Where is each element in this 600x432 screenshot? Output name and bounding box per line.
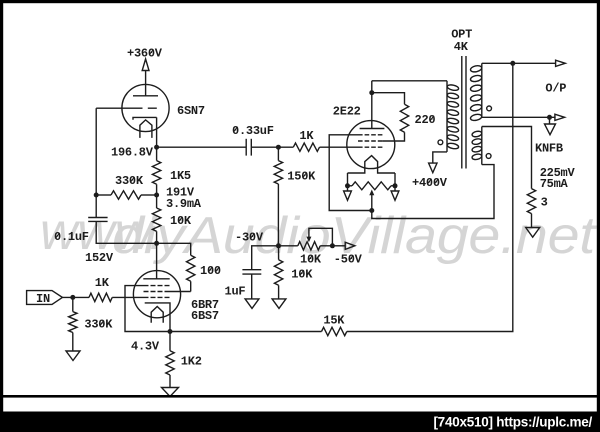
wire 2E22 plate to OPT primary — [372, 80, 447, 82]
node at 330K left — [94, 193, 99, 198]
wire 0.1uF bottom to 152V rail — [96, 221, 156, 243]
svg-text:[740x510] https://uplc.me/: [740x510] https://uplc.me/ — [433, 415, 592, 430]
ground (3R) — [526, 228, 540, 238]
6BR7 cathode — [145, 303, 170, 332]
svg-text:150K: 150K — [287, 170, 316, 184]
resistor 1K2 (cathode) — [166, 351, 174, 375]
wire cap to node — [251, 146, 293, 148]
svg-text:10K: 10K — [300, 252, 322, 266]
filament supply arrow left — [347, 186, 349, 191]
transformer OPT primary winding — [446, 81, 448, 152]
6SN7 plate bar — [133, 95, 158, 97]
resistor 10K (plate load) — [152, 208, 160, 231]
power +360V arrow — [142, 59, 149, 71]
node filament right — [393, 183, 398, 188]
secondary top lead — [482, 62, 556, 64]
2E22 grid g1 (dashed) — [358, 146, 382, 148]
power -50V arrow — [345, 242, 355, 249]
node coupling — [276, 145, 281, 150]
svg-text:0.1uF: 0.1uF — [54, 230, 89, 244]
transformer secondary winding (output) — [481, 63, 483, 117]
svg-text:3: 3 — [541, 195, 548, 209]
feedback phase dot — [486, 154, 491, 159]
filament right lead — [394, 173, 396, 186]
svg-text:196.8V: 196.8V — [111, 145, 154, 159]
svg-text:IN: IN — [36, 292, 50, 306]
svg-text:1uF: 1uF — [225, 284, 246, 298]
ground (10K) — [272, 299, 286, 309]
6BR7 grid g3 (dashed) — [144, 285, 170, 287]
wire 330K left stub — [96, 194, 111, 196]
transformer core — [461, 56, 463, 169]
wire 10K to ground — [278, 285, 280, 299]
wire -30V node to 1uF — [252, 246, 279, 270]
capacitor 0.33uF — [245, 139, 247, 156]
wire 1K to 6BR7 g1 — [112, 296, 143, 298]
KNFB arrow — [549, 117, 551, 124]
2E22 plate bar — [360, 128, 385, 130]
svg-text:4.3V: 4.3V — [131, 339, 160, 353]
wire 3R to ground — [531, 214, 533, 228]
wire 196.8V node to coupling cap — [157, 146, 246, 148]
resistor 330K (input) — [69, 312, 77, 333]
wire node to 1K5 — [156, 147, 158, 160]
wire 330K right stub — [141, 194, 157, 196]
node 152V — [154, 241, 159, 246]
wire 2E22 plate up — [371, 81, 373, 129]
wire IN to node — [62, 296, 89, 298]
tube 6SN7 envelope — [122, 84, 169, 131]
wire 6BR7 plate to 152V node — [156, 243, 158, 278]
wire O/P to 15K feedback — [347, 63, 513, 331]
resistor 15K (feedback) — [322, 327, 347, 335]
wire node to 150K — [277, 147, 279, 160]
wire to -50V arrow — [332, 245, 345, 247]
6BR7 heater — [151, 307, 163, 323]
tube 6BR7/6BS7 envelope — [133, 271, 180, 318]
node plate/220 — [369, 90, 374, 95]
svg-text:100: 100 — [200, 264, 221, 278]
wire +360V to 6SN7 plate — [145, 71, 147, 96]
svg-text:6BS7: 6BS7 — [191, 309, 219, 323]
svg-text:+360V: +360V — [127, 47, 163, 61]
wire 1K5 to 191V node — [156, 184, 158, 195]
node O/P bottom — [547, 115, 552, 120]
wire node to 330K — [72, 297, 74, 311]
wire -30V to pot — [279, 245, 298, 247]
svg-text:75mA: 75mA — [540, 177, 569, 191]
output arrow O/P top — [556, 60, 566, 66]
svg-text:+400V: +400V — [412, 176, 448, 190]
svg-text:330K: 330K — [115, 174, 144, 188]
wire 10K to 152V node — [156, 231, 158, 243]
svg-text:3.9mA: 3.9mA — [166, 197, 202, 211]
node -30V — [276, 243, 281, 248]
pot wiper arrowhead — [306, 237, 311, 243]
filament left lead — [347, 173, 349, 186]
wire 152V rail to 100R — [157, 243, 191, 255]
svg-text:10K: 10K — [170, 214, 192, 228]
resistor 330K (upper) — [111, 191, 141, 199]
secondary bottom lead — [482, 116, 556, 118]
wire -30V to 10K — [278, 246, 280, 260]
wire 6SN7 grid to left column — [96, 107, 133, 109]
resistor 3 ohm — [527, 189, 535, 214]
6BR7 plate bar — [143, 278, 169, 280]
node 196.8V — [154, 145, 159, 150]
node input junction — [70, 295, 75, 300]
ground (1K2) — [162, 388, 179, 397]
wire 1uF to ground — [251, 274, 253, 299]
svg-text:2E22: 2E22 — [333, 105, 361, 119]
ground (1uF) — [245, 299, 259, 309]
wire pot to -50V node — [320, 245, 332, 247]
wire 220 to g2 — [382, 132, 404, 141]
node -50V wire — [330, 243, 335, 248]
svg-text:6SN7: 6SN7 — [177, 104, 205, 118]
svg-text:-50V: -50V — [334, 252, 363, 266]
svg-text:4K: 4K — [454, 40, 469, 54]
frame border — [0, 0, 600, 3]
node filament left — [345, 183, 350, 188]
wire 1K2 to ground — [169, 375, 171, 388]
resistor 10K (bias divider) — [274, 260, 282, 286]
6SN7 grid (dashed) — [134, 107, 158, 109]
svg-text:1K: 1K — [95, 276, 110, 290]
node 191V — [154, 193, 159, 198]
6BR7 grid g1 (dashed) — [144, 296, 170, 298]
wire right node to pot — [391, 185, 395, 187]
wire 2E22 g3 tie to filament wiper — [329, 135, 372, 211]
resistor 1K (2E22 grid stopper) — [293, 143, 319, 151]
node wiper junction — [369, 208, 374, 213]
svg-text:-30V: -30V — [235, 230, 264, 244]
6SN7 heater — [140, 120, 152, 138]
svg-text:220: 220 — [415, 113, 436, 127]
svg-text:1K5: 1K5 — [170, 169, 191, 183]
resistor 220 (screen) — [400, 104, 408, 132]
svg-text:10K: 10K — [291, 267, 313, 281]
bottom host bar — [0, 412, 600, 432]
svg-text:330K: 330K — [84, 318, 113, 332]
2E22 grid g2 (dashed) — [358, 140, 382, 142]
filament supply arrow right — [394, 186, 396, 191]
svg-text:0.33uF: 0.33uF — [232, 124, 274, 138]
6SN7 cathode — [133, 117, 157, 119]
wire wiper to KNFB winding — [372, 165, 494, 219]
tube 2E22 envelope — [347, 121, 395, 169]
capacitor 0.1uF plates — [88, 217, 107, 219]
resistor 100 (screen) — [187, 255, 195, 281]
node IN tag — [27, 291, 63, 305]
2E22 filament — [348, 156, 396, 173]
wire 6SN7 cathode down to node — [156, 117, 158, 147]
wire 1K to 2E22 g1 — [320, 146, 359, 148]
svg-text:KNFB: KNFB — [535, 142, 563, 156]
wire 150K to -30V node — [277, 184, 279, 246]
capacitor 1uF plates — [242, 269, 261, 271]
svg-text:1K2: 1K2 — [181, 355, 202, 369]
svg-text:O/P: O/P — [545, 82, 566, 96]
ground (input) — [66, 351, 80, 361]
secondary phase dot — [487, 106, 492, 111]
wire left node to pot — [348, 185, 353, 187]
primary phase dot — [438, 140, 443, 145]
resistor 150K (grid leak) — [274, 161, 282, 184]
resistor 1K (grid stopper) — [89, 293, 112, 301]
6BR7 grid g2 (dashed) — [144, 291, 170, 293]
svg-text:152V: 152V — [85, 251, 114, 265]
node 4.3V cathode — [168, 329, 173, 334]
wire left column (grid bootstrap) — [95, 108, 97, 217]
wire 100R to 6BR7 g2 — [190, 281, 192, 291]
feedback winding top lead — [482, 127, 532, 189]
wire 6BR7 g2 to screen resistor — [170, 291, 191, 293]
pot wiper arm — [309, 228, 333, 246]
primary bottom lead — [433, 152, 447, 163]
node O/P top — [510, 61, 515, 66]
2E22 grid g3 (dashed) — [358, 134, 382, 136]
transformer feedback winding — [481, 127, 483, 165]
wire 6BR7 g3 tie to cathode — [125, 286, 170, 332]
wire cathode node to 1K2 — [169, 332, 171, 351]
wire plate node to 220 — [372, 93, 405, 105]
resistor 1K5 — [152, 161, 160, 185]
potentiometer 10K body — [298, 242, 320, 250]
svg-text:1K: 1K — [299, 129, 314, 143]
wire 15K to cathode node — [170, 331, 322, 333]
wire 330K to ground — [72, 333, 74, 352]
svg-text:15K: 15K — [323, 314, 345, 328]
potentiometer hum balance body — [352, 182, 391, 190]
output arrow O/P bottom — [555, 114, 565, 120]
power +400V arrow — [429, 163, 437, 173]
hum pot wiper — [371, 194, 373, 211]
wire 191V to 10K — [156, 195, 158, 208]
